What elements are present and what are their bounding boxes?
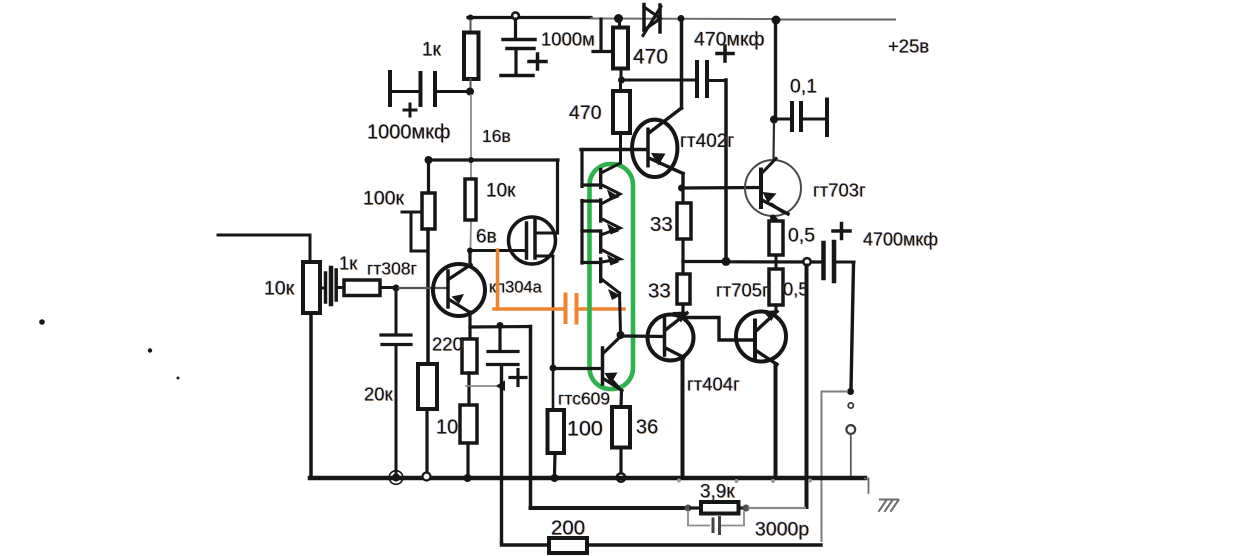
node 6v <box>467 248 473 254</box>
stray dot 1 <box>39 319 45 325</box>
node 16v top junction <box>466 88 474 96</box>
wire stack node to gt404 base <box>623 334 664 338</box>
wire bias cap to ground rail <box>395 346 398 473</box>
wire R1k to base node <box>380 286 393 289</box>
wire node to R220 <box>468 329 471 339</box>
diode D1 on +25v rail <box>643 5 661 36</box>
switch contact small <box>848 403 853 408</box>
capacitor orange C <box>566 295 577 323</box>
svg-text:гт705г: гт705г <box>716 280 769 301</box>
svg-text:3,9к: 3,9к <box>700 482 735 503</box>
node rail / R36 (open) <box>617 473 625 481</box>
wire input line <box>218 235 310 262</box>
diode VD3 bar <box>599 231 602 252</box>
wire orange horizontal left <box>494 307 564 311</box>
bracket rung 1 <box>582 183 600 186</box>
ground <box>865 479 899 512</box>
ground rail faint dots <box>677 479 681 483</box>
wire leads 3.9k <box>691 506 701 509</box>
svg-text:0,1: 0,1 <box>790 76 817 98</box>
junction arrow at bypass bottom <box>496 381 506 392</box>
svg-text:1000м: 1000м <box>541 29 595 50</box>
node R470 junction y80 <box>618 77 625 84</box>
resistor 0,5 #2 <box>769 269 783 305</box>
wire FET drain riser <box>556 160 559 233</box>
resistor 36 <box>612 407 630 448</box>
wire bias rail y160 <box>428 158 558 161</box>
resistor 0,5 #1 <box>769 221 783 255</box>
stack bottom diagonal with arrow <box>602 280 620 294</box>
wire node to gt703 collector (thin) <box>772 123 775 159</box>
wire gt402 base line <box>581 148 647 151</box>
potentiometer 10k input <box>303 262 320 313</box>
wire R0.5#1 to output node <box>775 255 778 261</box>
diode VD4 bar <box>599 259 602 282</box>
node rail / 1000m cap terminal (open circle) <box>512 12 519 19</box>
wire switch to rail <box>850 434 852 476</box>
wire base (gray) to gt308 <box>399 287 446 289</box>
resistor 470 #2 <box>613 91 630 133</box>
node rail / R100 <box>551 474 559 482</box>
wire R33#1 to node262 <box>681 239 684 262</box>
wire resistor 0,5#2 leads <box>775 262 778 269</box>
node 16v / bias rail crossing <box>468 157 474 163</box>
wire R0.5#2 to gt705 emitter <box>775 305 778 311</box>
svg-text:10к: 10к <box>264 278 295 300</box>
wire gray 3.9k to feedback dropper <box>749 507 805 509</box>
svg-text:1к: 1к <box>339 253 358 274</box>
resistor 3,9k <box>701 502 739 514</box>
transistor U1 kp304a FET <box>470 217 557 264</box>
stack spine top <box>602 151 621 173</box>
wire vertical x726 to output node <box>724 80 728 258</box>
svg-text:гт308г: гт308г <box>367 259 417 279</box>
svg-text:100: 100 <box>567 417 603 441</box>
resistor 1k vertical <box>464 33 479 80</box>
stack zigzag 2 with arrow <box>602 219 620 235</box>
wire orange horizontal right <box>579 307 625 311</box>
capacitor bypass electrolytic <box>488 352 527 386</box>
wire +25v rail thin segment right <box>776 19 895 21</box>
wire gt404 collector to rail <box>681 358 685 477</box>
diode stack bracket left vertical <box>580 151 583 187</box>
resistor 470 #1 <box>613 28 628 69</box>
svg-text:+25в: +25в <box>888 36 929 57</box>
transistor Q2 gt402g <box>632 120 683 177</box>
resistor 100 <box>548 410 565 453</box>
svg-text:470: 470 <box>569 102 602 124</box>
wire output node horizontal left part <box>683 260 726 263</box>
wire node80 to R470#2 <box>619 83 622 91</box>
wire cap to R1k input <box>336 286 344 289</box>
switch contact big <box>846 425 855 434</box>
resistor 33 #1 <box>677 203 691 239</box>
wire R220 to R10 <box>467 373 470 405</box>
capacitor 0,1 <box>778 100 827 136</box>
wire R1k to node 16v <box>470 79 472 87</box>
node rail / output branch junction <box>772 16 781 25</box>
wire node to bypass cap <box>498 328 501 350</box>
node rail / R 1k junction <box>468 15 474 21</box>
wire FET source down to R100 <box>552 258 555 407</box>
svg-text:33: 33 <box>650 213 673 236</box>
node switch top <box>847 388 854 395</box>
node rail / collector branch junction <box>678 15 685 22</box>
wire +25v rail thick segment <box>468 16 591 19</box>
wire pot wiper tick <box>320 287 325 290</box>
capacitor stub from rail (T bar) <box>593 19 613 52</box>
wire gtc609 emitter to R36 <box>619 391 623 408</box>
wire rail to R470#1 <box>618 20 621 28</box>
capacitor 1000mkf input supply <box>390 72 466 116</box>
wire R470#1 to node80 <box>620 69 623 78</box>
wire orange gate branch vertical <box>496 250 500 308</box>
wire R100k down to R20k <box>426 229 430 364</box>
wire gt703 emitter to R0.5#1 <box>775 219 778 221</box>
node stack / gt404 base <box>617 331 625 339</box>
transistor Q4 gt703g <box>745 159 801 217</box>
wire ground rail <box>310 476 865 481</box>
svg-text:200: 200 <box>551 517 585 540</box>
wire 200 row right <box>587 543 821 546</box>
wire +25v rail thin segment under diode <box>591 18 776 21</box>
svg-text:10: 10 <box>436 417 458 439</box>
wire 16v line (gray) <box>470 95 472 179</box>
wire gtc609 base <box>556 367 601 370</box>
wire rail to 0,1 node <box>774 22 777 117</box>
svg-text:470: 470 <box>633 46 668 69</box>
node rail / R20k (open) <box>423 473 431 481</box>
wire output node horizontal right part <box>728 260 822 263</box>
node x726 output junction <box>722 257 731 266</box>
wire gt402 emitter corner <box>681 174 684 188</box>
resistor 1k input horizontal <box>344 280 380 296</box>
node emitter/bypass junction <box>497 322 504 329</box>
wire R100 to rail <box>553 453 557 474</box>
stack zigzag 3 with arrow <box>602 250 620 262</box>
svg-text:20к: 20к <box>364 384 394 405</box>
wire cap to switch node <box>851 264 854 389</box>
node 0,1 cap junction <box>770 116 778 124</box>
wiper of 100k trimmer <box>402 211 422 214</box>
wire 3.9k row thick <box>531 506 687 510</box>
capacitor input coupling (3 bars) <box>326 268 337 304</box>
svg-text:36: 36 <box>636 417 658 439</box>
node emitter/R33 junction <box>678 185 685 192</box>
wire feedback riser x530 down to 3.9k line <box>529 327 533 509</box>
svg-text:гт703г: гт703г <box>813 180 866 201</box>
resistor 100k trimmer body <box>422 193 435 229</box>
capacitor 4700mkf <box>824 224 851 282</box>
svg-text:1к: 1к <box>422 40 442 61</box>
wire R36 to rail ring <box>619 448 622 473</box>
bracket rung 4 <box>582 261 600 264</box>
svg-text:1000мкф: 1000мкф <box>367 122 450 144</box>
svg-text:16в: 16в <box>482 126 511 146</box>
svg-text:гт404г: гт404г <box>687 374 740 395</box>
node bias rail left end <box>425 156 433 164</box>
bracket rung 3 <box>582 229 600 232</box>
wire node262 to R33#2 <box>681 262 684 275</box>
wire node160 to R100k <box>427 162 430 193</box>
wire node to bias cap <box>395 291 398 334</box>
svg-text:220: 220 <box>432 334 463 355</box>
wire gray riser down <box>821 392 823 542</box>
diode VD1 bar <box>599 170 602 188</box>
wire R10 to ground rail <box>466 443 469 474</box>
capacitor 470mkf <box>697 46 733 96</box>
transistor Q1 gt308g <box>433 264 485 316</box>
node base bias junction <box>393 285 400 292</box>
wire gt402 emitter node to gt703 base <box>683 186 760 190</box>
wire R20k to rail ring <box>425 409 428 472</box>
node ground rail / bias line (dot with ring) <box>392 474 400 482</box>
capacitor base bias <box>381 335 411 345</box>
wire pot bottom to ground rail <box>309 313 313 478</box>
bracket rung 2 <box>582 199 600 202</box>
transistor Q6 gt705g <box>736 310 786 365</box>
stack zigzag 1 with arrow <box>602 185 620 204</box>
green highlight oval around diode stack <box>590 164 634 389</box>
wire gt404 emitter to gt705 base <box>686 318 754 341</box>
transistor Q5 gt404g <box>648 312 694 361</box>
wire 470mkf to dropper x726 <box>709 79 724 82</box>
capacitor 3000p trimmer loop <box>688 511 744 534</box>
transistor Q3 gtc609 <box>603 337 623 391</box>
node rail / R470 junction <box>614 14 623 23</box>
svg-text:470мкф: 470мкф <box>694 29 765 51</box>
svg-text:гтс609: гтс609 <box>558 389 610 409</box>
wire rail to gt402 collector <box>680 21 684 108</box>
svg-text:10к: 10к <box>486 181 516 202</box>
wire gt308 emitter down <box>468 312 471 327</box>
svg-text:гт402г: гт402г <box>680 131 734 152</box>
resistor 10k (bias) <box>465 179 476 220</box>
wire R33#2 to gt404 emitter node <box>681 304 684 318</box>
node 3.9k left <box>685 505 692 512</box>
wire rail to R1k <box>470 20 472 33</box>
resistor 200 <box>549 538 587 553</box>
wire gray to left riser <box>822 391 847 393</box>
svg-text:0,5: 0,5 <box>788 225 815 247</box>
wire gray link to R10 line <box>466 385 495 387</box>
wire node80 to 470mkf cap <box>624 79 695 82</box>
svg-text:3000р: 3000р <box>755 519 809 541</box>
wire 200 row <box>502 543 550 545</box>
node source / gtc609 base <box>550 365 557 372</box>
wire emitter node horizontal <box>470 325 531 329</box>
resistor 20k <box>418 364 437 409</box>
svg-text:100к: 100к <box>363 188 405 210</box>
stray dot 3 <box>177 377 180 380</box>
node ground rail / R10 <box>464 474 472 482</box>
node 3.9k right <box>743 505 750 512</box>
wire bypass cap down to 200 line <box>500 366 503 543</box>
wire 4700mkf right lead <box>836 261 854 264</box>
stack spine to node <box>620 293 621 333</box>
wire gt705 collector to rail <box>774 364 778 476</box>
node output (open circle) <box>803 258 810 265</box>
node gt703 emitter / R0.5 <box>770 215 776 221</box>
svg-text:33: 33 <box>648 280 671 303</box>
wire output node down to 3.9k line <box>805 266 809 508</box>
resistor 10 <box>460 405 477 443</box>
stray dot 2 <box>148 348 152 352</box>
wire gt308 collector up to 6v node <box>468 252 471 265</box>
resistor 33 #2 <box>677 274 690 304</box>
wire node188 to R33#1 <box>681 190 684 203</box>
svg-text:6в: 6в <box>476 227 497 248</box>
wire R470#2 to gt402 base node <box>619 133 622 148</box>
svg-text:4700мкф: 4700мкф <box>863 230 938 250</box>
capacitor 1000m <box>501 19 546 76</box>
resistor 220 <box>462 339 477 373</box>
diode VD2 bar <box>599 200 602 221</box>
